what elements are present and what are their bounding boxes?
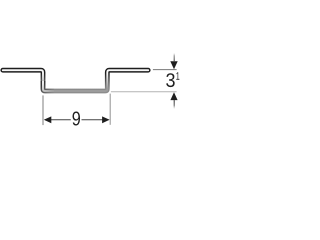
dimension line 9 (left segment) [45,119,71,121]
dimension label 3 [166,73,175,87]
dimension line 3 (lower segment) [173,100,175,109]
bottom-left corner darker overlay (band) [43,81,54,91]
dimension arrow left [44,116,52,123]
profile cross-section (inner light core showing material thickness) [3,70,148,91]
dimension label footnote superscript 1 [176,72,179,79]
extension line top (height dimension, from flange end) [153,69,177,71]
dimension arrow up [170,92,177,100]
dimension arrow down [170,61,177,69]
extension line right (width dimension) [109,94,111,125]
dimension line 9 (right segment) [82,119,109,121]
bottom-left corner darker overlay (core) [43,81,54,91]
dimension line 3 (upper segment) [173,53,175,61]
dimension label 9 [73,112,80,126]
dimension arrow right [102,116,110,123]
extension line left (width dimension) [42,95,44,125]
profile cross-section (sheet-metal channel, outer band) [3,70,148,91]
extension line bottom (height dimension, from channel bottom) [111,91,177,93]
